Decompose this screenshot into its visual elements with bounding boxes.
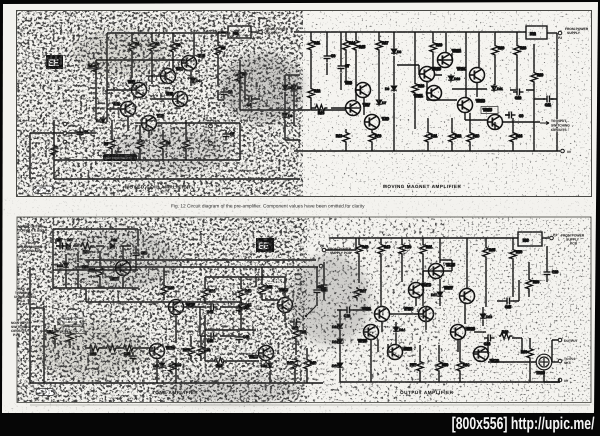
capacitor C24: [484, 335, 495, 347]
node P5: [319, 264, 323, 268]
resistor R24: [510, 131, 522, 145]
wire: [122, 277, 124, 288]
wire: [438, 345, 440, 382]
resistor R59: [436, 360, 448, 373]
wire: output amp +rail: [330, 237, 518, 239]
diode D6: [282, 83, 292, 91]
wire: [218, 90, 224, 100]
transistor TR25: [429, 263, 455, 279]
resistor R30: [80, 243, 94, 254]
wire: [295, 322, 297, 355]
resistor R57: [410, 360, 423, 373]
stamp: [33, 186, 53, 194]
node: to input switching: [540, 121, 549, 124]
resistor R35a: [51, 144, 57, 158]
stamp 2: [36, 389, 55, 396]
switch S1: [306, 306, 316, 316]
resistor R33: [88, 345, 102, 356]
wire: [56, 245, 131, 247]
wire: [323, 262, 325, 300]
resistor R36: [161, 284, 174, 297]
diode D14: [393, 325, 405, 333]
resistor VR2: [67, 331, 73, 344]
wire: [529, 338, 531, 382]
transistor TR18: [249, 346, 274, 361]
wire: [482, 307, 484, 326]
wire: [326, 32, 328, 75]
wire: [43, 308, 45, 383]
wire: [29, 133, 31, 179]
node input a: [63, 122, 67, 126]
wire: [465, 113, 487, 120]
wire: [262, 267, 278, 300]
resistor R15: [353, 39, 365, 52]
resistor R13: [314, 105, 327, 115]
diode D21: [153, 361, 165, 369]
resistor R14: [343, 39, 355, 52]
wire: [345, 32, 347, 83]
diode D16: [480, 312, 492, 320]
wire: [552, 361, 558, 363]
diode D7: [376, 98, 386, 106]
diode D12: [332, 322, 343, 330]
resistor R48: [356, 243, 368, 257]
label bar: see text note: [103, 154, 137, 161]
wire: [414, 32, 416, 129]
wire: [131, 33, 133, 78]
wire: [458, 304, 488, 352]
wire: [29, 267, 31, 383]
wire: ladder: [205, 277, 256, 330]
diode D22: [261, 361, 273, 369]
wire: [439, 279, 441, 306]
wire: [544, 370, 560, 382]
diode D13: [332, 337, 343, 345]
node input c: [63, 140, 67, 144]
wire: [266, 361, 270, 383]
resistor R5: [215, 44, 226, 57]
wire: [239, 123, 241, 160]
wire: [285, 74, 300, 76]
wire: [107, 89, 131, 91]
wire: [30, 132, 63, 134]
resistor R42: [259, 283, 272, 296]
wire: [96, 59, 185, 61]
capacitor C3: [115, 148, 122, 159]
resistor R7: [104, 138, 115, 152]
diode D1: [96, 116, 106, 124]
wire: [77, 252, 79, 288]
transistor TR5: [166, 92, 188, 107]
capacitor C25: [503, 298, 514, 310]
wire: [67, 132, 96, 134]
capacitor C46: [207, 333, 218, 344]
capacitor C28: [133, 249, 148, 260]
wire: [370, 340, 372, 382]
resistor R22: [449, 131, 461, 145]
wire: [295, 348, 307, 383]
wire: [205, 329, 256, 331]
wire: [505, 90, 516, 115]
resistor R45: [287, 358, 298, 371]
resistor R31: [89, 266, 103, 279]
scan smudges: [35, 30, 370, 404]
logo EE: [46, 55, 63, 69]
resistor R18: [412, 82, 424, 96]
wire: [122, 246, 124, 260]
transistor TR10: [420, 67, 441, 82]
wire: [393, 32, 395, 151]
wire: tone rail b: [85, 266, 318, 268]
resistor R40: [238, 287, 251, 300]
capacitor C6: [324, 52, 336, 63]
resistor R61: [420, 243, 432, 257]
wire: [427, 118, 429, 151]
wire: [439, 238, 441, 263]
wire: [55, 325, 70, 348]
transistor TR8: [345, 81, 371, 98]
wire: [512, 238, 514, 297]
wire: [516, 32, 518, 90]
transistor TR4: [161, 67, 183, 84]
wire: [363, 97, 365, 115]
wire: [445, 32, 447, 53]
wire: [311, 107, 345, 109]
node out mid: [558, 359, 562, 363]
capacitor C21: [318, 281, 328, 292]
wire: [432, 32, 434, 67]
wire: [99, 252, 101, 288]
wire: [389, 313, 403, 315]
wire: [478, 32, 480, 68]
wire: [469, 113, 471, 151]
wire: [419, 345, 421, 382]
diode D17: [66, 238, 73, 249]
wire: [512, 338, 522, 352]
capacitor C10: [513, 89, 524, 101]
capacitor C20: [290, 319, 301, 331]
wire: [466, 238, 468, 288]
transistor TR28: [474, 347, 499, 364]
wire: [256, 277, 285, 297]
wire: [451, 118, 453, 151]
transistor TR22: [388, 345, 412, 360]
wire: [355, 32, 357, 100]
wire: [474, 331, 486, 333]
wire: [378, 322, 388, 352]
transistor TR3: [142, 114, 164, 131]
capacitor C31: [130, 352, 137, 363]
resistor R34: [105, 345, 119, 351]
resistor VR1: [47, 328, 58, 341]
wire: [150, 98, 172, 100]
wire: [205, 330, 259, 361]
control BALANCE: [60, 318, 83, 325]
wire: [162, 130, 164, 160]
wire: [423, 271, 429, 282]
diode D18: [110, 238, 117, 249]
node P2: [558, 31, 562, 35]
wire: [326, 238, 356, 250]
wire: [355, 89, 360, 91]
op-amp IC2: [526, 26, 547, 39]
resistor R28: [514, 44, 526, 57]
resistor R3: [170, 41, 181, 54]
resistor R17: [376, 39, 388, 52]
node P1: [259, 30, 263, 34]
transistor TR13: [458, 98, 485, 113]
node out 0V: [558, 378, 562, 382]
resistor R38: [198, 345, 210, 358]
wire: [452, 88, 487, 90]
wire: [427, 82, 457, 100]
transistor TR17: [169, 300, 195, 315]
wire: output amp 0V rail: [340, 381, 560, 383]
wire: [340, 32, 342, 90]
wire: [401, 238, 403, 282]
wire: [294, 109, 345, 111]
wire: [316, 267, 318, 306]
wire: [175, 315, 177, 383]
wire: 0V rail: [294, 150, 560, 152]
wire: [546, 246, 548, 282]
transistor TR6: [182, 54, 205, 71]
wire: mute box: [53, 229, 138, 288]
resistor R64: [457, 360, 469, 373]
wire: [476, 83, 478, 97]
wire: [284, 313, 286, 322]
wire: [494, 122, 496, 129]
wire: [487, 338, 489, 354]
wire: +supply rail (moving coil): [107, 32, 228, 34]
transistor TR2: [128, 80, 147, 98]
wire: [151, 33, 153, 84]
capacitor C30: [75, 263, 89, 274]
wire: [397, 64, 419, 66]
wire: [86, 288, 240, 310]
wire: [135, 122, 141, 124]
resistor R66: [499, 330, 512, 339]
resistor R39: [169, 361, 181, 374]
wire: [310, 32, 312, 110]
resistor R12: [308, 87, 320, 101]
wire: [150, 348, 157, 383]
capacitor C19: [314, 286, 328, 297]
capacitor C4: [245, 96, 256, 108]
svg-text:[800x556] http://upic.me/: [800x556] http://upic.me/: [452, 414, 595, 433]
wire: [128, 117, 149, 138]
wire: [85, 347, 150, 349]
diode D5: [291, 83, 301, 91]
wire: [65, 254, 67, 288]
wire: [239, 60, 241, 110]
wire: [53, 246, 138, 270]
capacitor C7: [223, 130, 235, 141]
wire: [146, 75, 160, 77]
wire: [172, 33, 174, 70]
resistor R44: [213, 358, 227, 368]
resistor R21: [425, 131, 437, 145]
transistor TR1: [113, 102, 136, 117]
transistor TR29: [536, 354, 552, 375]
transistor TR19: [278, 288, 293, 313]
transistor TR27: [444, 286, 475, 304]
wire: [54, 178, 300, 180]
wire: [528, 262, 530, 297]
resistor R8: [137, 138, 143, 152]
wire: [497, 280, 519, 301]
diode D11: [491, 84, 503, 92]
diode D10: [448, 74, 460, 82]
capacitor C7b: [338, 62, 350, 73]
capacitor C1: [77, 128, 89, 139]
capacitor C45: [207, 304, 218, 315]
node OUTPUT: [558, 338, 562, 342]
transistor TR12: [438, 49, 461, 68]
wire: [419, 65, 442, 75]
wire: [218, 31, 228, 33]
wire: [284, 75, 286, 110]
resistor R4: [88, 61, 99, 75]
logo EE (2): [256, 238, 274, 252]
resistor R47: [354, 287, 366, 300]
wire: [551, 33, 557, 151]
resistor R56: [510, 248, 522, 262]
wire: [542, 237, 549, 239]
op-amp IC1: [228, 26, 251, 38]
wire: [416, 298, 426, 330]
wire: [139, 125, 141, 160]
node input b: [63, 131, 67, 135]
wire: [438, 53, 452, 60]
resistor R11: [308, 39, 320, 52]
capacitor C9: [505, 112, 523, 119]
wire: [358, 238, 360, 283]
wire: [547, 32, 557, 34]
transistor TR21: [362, 307, 390, 322]
resistor R26: [492, 44, 504, 57]
node P3: [550, 236, 554, 240]
wire: [156, 122, 240, 124]
resistor R6: [236, 70, 247, 84]
wire: [217, 33, 219, 86]
capacitor C27: [56, 238, 67, 250]
wire: [251, 31, 258, 33]
resistor R46: [304, 358, 316, 371]
resistor R37: [183, 345, 194, 358]
wire: [111, 120, 113, 160]
wire: [380, 238, 382, 306]
wire: [552, 340, 558, 362]
resistor R35: [122, 345, 136, 356]
resistor R29: [531, 71, 543, 85]
wire: [191, 33, 194, 86]
transistor TR23: [409, 283, 431, 298]
transistor TR30: [110, 261, 131, 282]
wire: +supply rail (moving magnet): [294, 31, 526, 33]
wire: [494, 32, 496, 85]
capacitor C11: [543, 96, 554, 108]
resistor R1: [129, 40, 140, 53]
capacitor C48: [236, 333, 250, 344]
transistor TR20: [358, 325, 379, 344]
wire: [378, 32, 380, 100]
resistor R2: [149, 40, 160, 53]
node 0V: [561, 149, 565, 153]
wire: [53, 120, 55, 179]
wire: [488, 361, 536, 363]
transistor TR24: [404, 307, 434, 322]
wire: [526, 90, 545, 99]
transistor TR15: [483, 108, 503, 130]
wire: [240, 109, 294, 111]
wire: tone 0V rail: [30, 382, 323, 384]
transistor TR9: [365, 115, 389, 130]
wire: [106, 33, 108, 122]
wire: [185, 120, 187, 160]
wire: [200, 306, 236, 308]
wire: [199, 307, 201, 336]
wire: [459, 340, 461, 382]
capacitor C47: [236, 304, 250, 315]
wire: [293, 84, 295, 126]
resistor R10: [183, 138, 189, 152]
resistor R19: [336, 131, 349, 145]
connector SK1 (dashed): [206, 118, 215, 150]
resistor R50: [399, 243, 411, 257]
transistor TR7: [346, 101, 370, 116]
resistor R16: [369, 131, 381, 145]
transistor TR11: [414, 86, 442, 101]
diode D8: [282, 111, 292, 119]
wire: [285, 110, 300, 140]
diode D15: [431, 290, 443, 298]
transistor TR26: [451, 325, 475, 340]
wire: tone rail a: [85, 259, 316, 261]
wire: [371, 129, 373, 151]
wire: [512, 118, 514, 151]
op-amp IC3: [518, 232, 542, 246]
wire: [200, 335, 236, 337]
diode D20: [57, 261, 69, 269]
diode D8b: [391, 47, 401, 55]
control VOLUME: [63, 327, 84, 334]
diode D19: [332, 361, 343, 369]
wire: [422, 238, 424, 306]
resistor R65: [483, 246, 495, 260]
wire: [345, 129, 347, 151]
wire: [54, 159, 240, 161]
resistor R38a: [202, 287, 215, 300]
transistor TR16: [150, 344, 175, 359]
wire: [30, 307, 44, 309]
wire: [183, 306, 200, 308]
resistor R23: [467, 131, 479, 145]
wire: [337, 309, 362, 311]
wire: [163, 267, 165, 300]
label box TR15: [481, 107, 498, 114]
text watermark: [452, 414, 595, 433]
transistor TR14: [457, 67, 485, 83]
resistor R49: [378, 243, 390, 257]
diode D9: [385, 84, 397, 92]
wire: [345, 107, 360, 109]
capacitor C26: [544, 268, 559, 279]
resistor R9: [160, 138, 171, 152]
resistor R58: [526, 278, 539, 291]
wire: [107, 108, 120, 110]
wire: [95, 60, 97, 120]
